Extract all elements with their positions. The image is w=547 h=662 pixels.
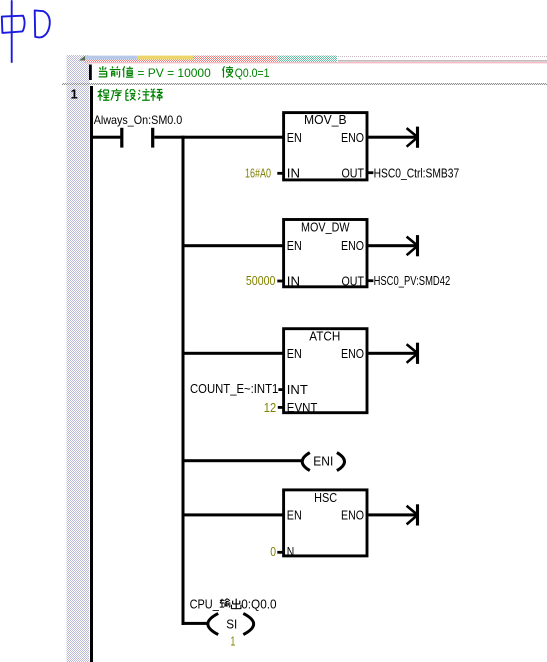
arrow: rung continuation (MOV_B) xyxy=(407,127,418,148)
wire: branch to MOV_DW EN xyxy=(185,244,284,247)
comment marker bar row 1 xyxy=(89,65,92,81)
coil ENI xyxy=(302,453,344,471)
toolbar sliver: red dithered segment xyxy=(193,56,277,63)
wire: branch to ENI coil xyxy=(185,459,303,462)
toolbar sliver: green dithered segment xyxy=(277,56,337,63)
svg-text:HSC: HSC xyxy=(314,491,337,505)
svg-text:INT: INT xyxy=(287,383,308,397)
stub wire: 0 to N xyxy=(277,551,283,554)
editor gutter (dithered) xyxy=(67,55,90,662)
toolbar sliver: yellow segment xyxy=(137,56,193,60)
svg-text:CPU_: CPU_ xyxy=(190,598,220,612)
function block MOV_DW xyxy=(284,220,367,289)
toolbar sliver: pink bottom line xyxy=(85,62,547,64)
svg-text:ENI: ENI xyxy=(313,455,333,469)
function block HSC xyxy=(284,490,367,559)
svg-text:ENO: ENO xyxy=(341,131,364,145)
svg-text:0:Q0.0: 0:Q0.0 xyxy=(241,598,276,612)
coil SI (set immediate) xyxy=(208,613,254,634)
svg-text:ENO: ENO xyxy=(341,239,364,253)
wire: rail to contact xyxy=(93,136,121,139)
svg-text:ENO: ENO xyxy=(341,347,364,361)
wire: MOV_DW ENO out xyxy=(368,244,416,247)
network separator dotted line xyxy=(62,83,547,85)
svg-text:MOV_DW: MOV_DW xyxy=(301,221,350,235)
toolbar sliver: blue segment xyxy=(85,56,137,60)
svg-text:EVNT: EVNT xyxy=(287,401,318,415)
svg-text:SI: SI xyxy=(226,617,237,631)
function block MOV_B xyxy=(284,113,367,181)
svg-text:EN: EN xyxy=(287,131,302,145)
arrow: rung continuation (ATCH) xyxy=(407,343,418,364)
svg-text:COUNT_E~:INT1: COUNT_E~:INT1 xyxy=(190,382,278,396)
svg-text:IN: IN xyxy=(287,274,300,288)
svg-text:Q0.0=1: Q0.0=1 xyxy=(235,66,270,80)
svg-text:= PV = 10000: = PV = 10000 xyxy=(137,66,211,80)
svg-text:OUT: OUT xyxy=(342,166,365,180)
svg-text:0: 0 xyxy=(270,545,276,559)
svg-text:1: 1 xyxy=(71,86,78,101)
stub wire: OUT to operand (MOV_DW) xyxy=(367,279,373,282)
wire: contact to MOV_B EN xyxy=(154,136,282,139)
stub wire: 12 to EVNT xyxy=(278,406,284,409)
svg-text:EN: EN xyxy=(287,508,302,522)
network comment row 1: 使 xyxy=(222,66,233,77)
network comment row 2: 程序段注释 xyxy=(98,89,163,101)
wire: HSC ENO out xyxy=(368,513,416,516)
svg-text:12: 12 xyxy=(264,401,276,415)
function block ATCH xyxy=(284,329,367,416)
branch wire: vertical bus xyxy=(182,136,185,625)
stub wire: 50000 to IN xyxy=(277,280,283,283)
svg-text:ENO: ENO xyxy=(341,508,364,522)
stub wire: 16#A0 to IN xyxy=(277,172,283,175)
svg-text:EN: EN xyxy=(287,239,302,253)
svg-text:OUT: OUT xyxy=(342,274,365,288)
left power rail xyxy=(90,86,93,662)
svg-text:ATCH: ATCH xyxy=(309,329,340,343)
svg-text:IN: IN xyxy=(287,166,300,180)
svg-text:1: 1 xyxy=(230,634,235,648)
arrow: rung continuation (HSC) xyxy=(407,504,418,525)
stub wire: COUNT_E~:INT1 to INT xyxy=(278,388,283,391)
svg-text:Always_On:SM0.0: Always_On:SM0.0 xyxy=(94,113,183,127)
svg-text:N: N xyxy=(287,545,295,559)
contact Always_On:SM0.0 bar 1 xyxy=(120,128,123,148)
svg-text:MOV_B: MOV_B xyxy=(304,113,347,127)
svg-text:50000: 50000 xyxy=(246,274,276,288)
toolbar sliver: dotted top line right part xyxy=(338,56,547,58)
wire: MOV_B ENO out xyxy=(368,136,416,139)
wire: branch elbow to SI coil xyxy=(185,622,208,625)
annotation: handwritten blue mark (中 D) xyxy=(2,1,50,62)
svg-text:HSC0_Ctrl:SMB37: HSC0_Ctrl:SMB37 xyxy=(374,166,460,180)
wire: branch to HSC EN xyxy=(185,513,284,516)
wire: branch to ATCH EN xyxy=(185,352,284,355)
svg-text:16#A0: 16#A0 xyxy=(245,167,271,181)
toolbar sliver: dark chip at left xyxy=(79,56,85,61)
stub wire: OUT to operand xyxy=(367,171,373,174)
contact Always_On:SM0.0 bar 2 xyxy=(151,128,154,148)
svg-text:EN: EN xyxy=(287,347,302,361)
toolbar sliver: red dither under blue and yellow xyxy=(85,60,193,63)
wire: ATCH ENO out xyxy=(368,352,416,355)
label CPU_输出0:Q0.0 xyxy=(190,598,277,612)
toolbar sliver: gray line right part xyxy=(338,60,547,62)
svg-text:HSC0_PV:SMD42: HSC0_PV:SMD42 xyxy=(374,274,451,288)
arrow: rung continuation (MOV_DW) xyxy=(407,235,418,256)
network comment row 1: 当前值 xyxy=(99,66,134,77)
